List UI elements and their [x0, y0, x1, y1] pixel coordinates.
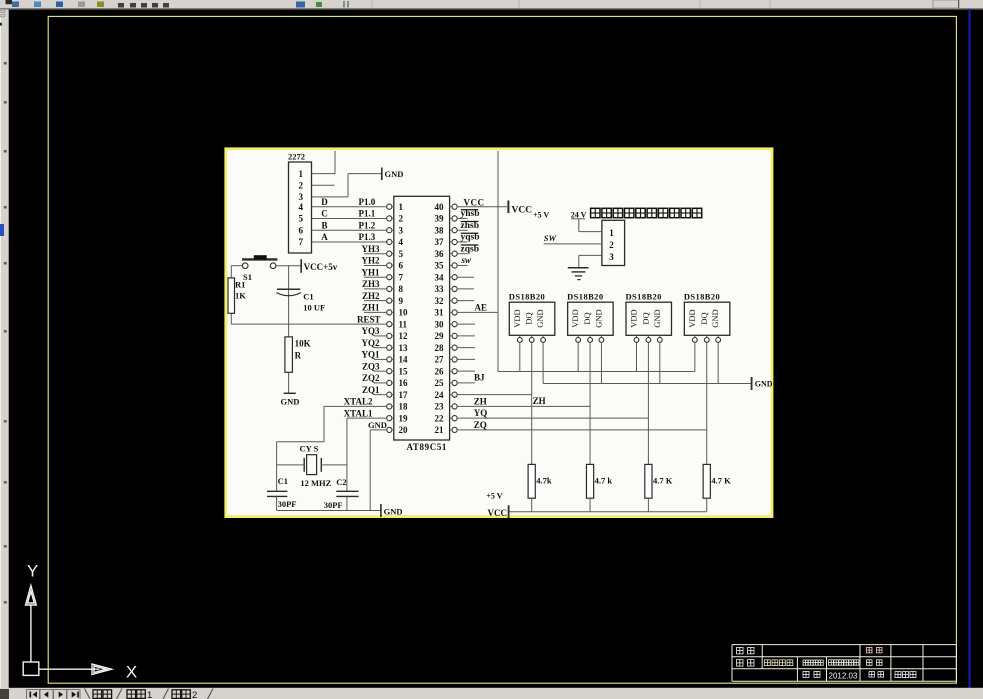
- svg-text:GND: GND: [710, 309, 720, 327]
- svg-text:C2: C2: [336, 477, 346, 487]
- svg-text:18: 18: [399, 402, 409, 412]
- svg-text:29: 29: [435, 331, 445, 341]
- svg-text:39: 39: [435, 214, 445, 224]
- svg-text:2012.03: 2012.03: [829, 672, 858, 681]
- svg-text:22: 22: [435, 413, 445, 423]
- svg-text:X: X: [126, 663, 137, 682]
- svg-text:28: 28: [435, 343, 445, 353]
- svg-text:7: 7: [399, 272, 404, 282]
- svg-text:3: 3: [299, 192, 304, 202]
- svg-text:VCC+5v: VCC+5v: [304, 262, 338, 272]
- svg-text:BJ: BJ: [474, 372, 485, 382]
- svg-text:GND: GND: [535, 309, 545, 327]
- svg-text:YH3: YH3: [362, 244, 381, 254]
- svg-text:ZH2: ZH2: [362, 291, 380, 301]
- svg-text:10 UF: 10 UF: [303, 303, 325, 313]
- svg-text:33: 33: [435, 284, 445, 294]
- svg-text:12 MHZ: 12 MHZ: [300, 478, 331, 488]
- svg-text:XTAL2: XTAL2: [344, 397, 373, 407]
- svg-text:1: 1: [609, 228, 614, 238]
- svg-text:ZH1: ZH1: [362, 303, 380, 313]
- svg-text:6: 6: [299, 225, 304, 235]
- svg-text:4: 4: [399, 237, 404, 247]
- svg-text:40: 40: [435, 202, 445, 212]
- svg-text:GND: GND: [593, 309, 603, 327]
- svg-text:ZQ3: ZQ3: [362, 361, 380, 371]
- svg-text:VDD: VDD: [512, 309, 522, 327]
- svg-text:ZQ1: ZQ1: [362, 385, 380, 395]
- svg-text:XTAL1: XTAL1: [344, 408, 373, 418]
- svg-text:DS18B20: DS18B20: [567, 292, 603, 302]
- svg-text:4.7k: 4.7k: [536, 476, 552, 486]
- svg-text:2: 2: [192, 690, 197, 699]
- svg-text:zqsb: zqsb: [461, 244, 479, 254]
- svg-text:yhsb: yhsb: [461, 209, 480, 219]
- svg-text:6: 6: [399, 261, 404, 271]
- svg-text:P1.0: P1.0: [359, 197, 376, 207]
- svg-text:7: 7: [299, 237, 304, 247]
- svg-text:32: 32: [435, 296, 445, 306]
- svg-text:2272: 2272: [288, 152, 305, 162]
- svg-text:YQ1: YQ1: [362, 350, 381, 360]
- svg-text:SW: SW: [544, 233, 558, 243]
- svg-text:DQ: DQ: [524, 312, 534, 324]
- svg-text:26: 26: [435, 366, 445, 376]
- svg-text:24 V: 24 V: [571, 210, 587, 219]
- svg-text:DS18B20: DS18B20: [684, 292, 720, 302]
- svg-text:+5 V: +5 V: [533, 211, 549, 220]
- svg-text:AT89C51: AT89C51: [407, 442, 448, 452]
- svg-text:YH2: YH2: [362, 256, 381, 266]
- svg-text:27: 27: [435, 355, 445, 365]
- svg-text:3: 3: [609, 252, 614, 262]
- svg-text:ZH: ZH: [533, 396, 546, 406]
- svg-text:10: 10: [399, 308, 409, 318]
- svg-text:1K: 1K: [235, 290, 246, 300]
- svg-text:YQ3: YQ3: [362, 326, 381, 336]
- svg-text:8: 8: [399, 284, 404, 294]
- svg-text:yqsb: yqsb: [461, 233, 480, 243]
- svg-text:2: 2: [299, 180, 304, 190]
- svg-text:24: 24: [435, 390, 445, 400]
- svg-text:P1.1: P1.1: [359, 209, 376, 219]
- svg-text:VCC: VCC: [488, 508, 508, 518]
- svg-text:sw: sw: [461, 255, 473, 265]
- svg-text:2: 2: [609, 240, 614, 250]
- svg-text:30: 30: [435, 319, 445, 329]
- svg-text:9: 9: [399, 296, 404, 306]
- svg-text:23: 23: [435, 402, 445, 412]
- svg-text:DQ: DQ: [699, 312, 709, 324]
- svg-text:20: 20: [399, 425, 409, 435]
- svg-text:ZH3: ZH3: [362, 279, 380, 289]
- svg-text:GND: GND: [652, 309, 662, 327]
- svg-text:VCC: VCC: [464, 197, 485, 207]
- svg-text:30PF: 30PF: [278, 499, 297, 509]
- svg-text:19: 19: [399, 413, 409, 423]
- svg-text:D: D: [321, 197, 328, 207]
- svg-text:P1.3: P1.3: [359, 232, 376, 242]
- svg-text:25: 25: [435, 378, 445, 388]
- svg-text:GND: GND: [368, 420, 387, 430]
- svg-text:ZH: ZH: [474, 396, 487, 406]
- svg-text:34: 34: [435, 272, 445, 282]
- svg-text:4.7 K: 4.7 K: [653, 476, 673, 486]
- svg-text:GND: GND: [755, 380, 773, 389]
- svg-text:C1: C1: [278, 476, 288, 486]
- svg-text:DQ: DQ: [640, 312, 650, 324]
- svg-text:GND: GND: [384, 507, 403, 517]
- svg-text:14: 14: [399, 355, 409, 365]
- svg-text:DS18B20: DS18B20: [509, 292, 545, 302]
- svg-text:VCC: VCC: [512, 206, 533, 216]
- svg-text:17: 17: [399, 390, 409, 400]
- svg-text:15: 15: [399, 366, 409, 376]
- svg-text:VDD: VDD: [687, 309, 697, 327]
- svg-text:AE: AE: [475, 302, 488, 312]
- svg-text:11: 11: [399, 319, 408, 329]
- svg-text:A: A: [321, 232, 328, 242]
- svg-text:5: 5: [399, 249, 404, 259]
- svg-text:GND: GND: [385, 169, 404, 179]
- svg-text:4.7 K: 4.7 K: [711, 476, 731, 486]
- svg-text:REST: REST: [357, 314, 381, 324]
- svg-text:38: 38: [435, 225, 445, 235]
- svg-text:ZQ: ZQ: [474, 420, 487, 430]
- svg-text:4.7 k: 4.7 k: [595, 476, 613, 486]
- svg-text:Y: Y: [27, 562, 38, 581]
- svg-text:21: 21: [435, 425, 445, 435]
- svg-text:13: 13: [399, 343, 409, 353]
- svg-text:YQ2: YQ2: [362, 338, 381, 348]
- svg-text:CY S: CY S: [300, 443, 319, 453]
- svg-text:C: C: [321, 209, 328, 219]
- svg-text:37: 37: [435, 237, 445, 247]
- svg-text:DS18B20: DS18B20: [626, 292, 662, 302]
- svg-text:VDD: VDD: [570, 309, 580, 327]
- svg-text:10K: 10K: [295, 339, 311, 349]
- svg-text:YQ: YQ: [474, 408, 488, 418]
- svg-text:DQ: DQ: [582, 312, 592, 324]
- svg-text:GND: GND: [281, 397, 300, 407]
- svg-text:12: 12: [399, 331, 409, 341]
- svg-text:B: B: [321, 220, 327, 230]
- svg-text:YH1: YH1: [362, 267, 381, 277]
- svg-text:2: 2: [399, 214, 404, 224]
- svg-text:zhsb: zhsb: [461, 221, 479, 231]
- svg-text:R: R: [295, 350, 302, 360]
- svg-text:36: 36: [435, 249, 445, 259]
- svg-text:ZQ2: ZQ2: [362, 373, 380, 383]
- svg-text:P1.2: P1.2: [359, 220, 376, 230]
- svg-text:1: 1: [399, 202, 404, 212]
- svg-text:VDD: VDD: [629, 309, 639, 327]
- svg-text:31: 31: [435, 308, 445, 318]
- svg-text:35: 35: [435, 261, 445, 271]
- svg-text:16: 16: [399, 378, 409, 388]
- svg-text:30PF: 30PF: [324, 500, 343, 510]
- svg-text:1: 1: [147, 690, 152, 699]
- svg-text:R1: R1: [235, 280, 245, 290]
- svg-text:4: 4: [299, 202, 304, 212]
- svg-text:C1: C1: [303, 291, 313, 301]
- svg-text:+5 V: +5 V: [486, 491, 502, 500]
- svg-text:3: 3: [399, 225, 404, 235]
- svg-text:1: 1: [299, 169, 304, 179]
- svg-text:5: 5: [299, 214, 304, 224]
